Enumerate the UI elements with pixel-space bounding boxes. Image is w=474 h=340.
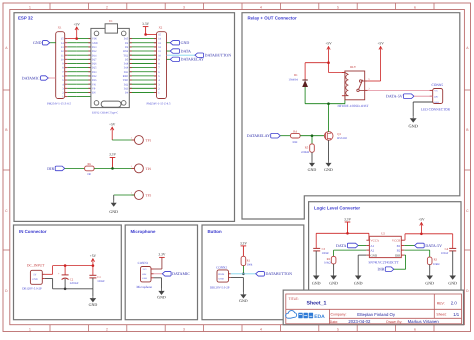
svg-text:3.3V: 3.3V — [109, 153, 116, 157]
svg-text:EDA: EDA — [314, 314, 325, 320]
svg-text:2023-04-02: 2023-04-02 — [348, 319, 371, 324]
svg-text:DB128V-5.0-2P: DB128V-5.0-2P — [210, 286, 230, 290]
svg-text:U1: U1 — [109, 19, 113, 23]
svg-text:6: 6 — [414, 327, 416, 331]
svg-text:100nF: 100nF — [97, 279, 105, 283]
svg-text:B1: B1 — [397, 244, 401, 248]
frame ticks sides — [3, 90, 471, 250]
relay RLY HF100F — [345, 71, 365, 100]
svg-text:100nF: 100nF — [441, 251, 449, 255]
net flag DATAMIC (mic) — [154, 273, 163, 275]
svg-text:TP3: TP3 — [146, 194, 152, 198]
svg-text:RXD: RXD — [123, 75, 129, 78]
svg-text:EN: EN — [92, 92, 96, 95]
wire CONN5 gnd — [413, 101, 433, 103]
wire U1 to X2 rows — [129, 39, 156, 93]
power +5V (LLC) — [420, 223, 422, 234]
svg-text:+5V: +5V — [90, 254, 97, 258]
svg-text:TITLE:: TITLE: — [289, 297, 299, 301]
power +5V (IN) — [92, 259, 94, 266]
svg-text:D21: D21 — [124, 71, 129, 74]
svg-text:CONN5: CONN5 — [432, 83, 444, 87]
power +5V (X1 top) — [76, 27, 78, 39]
svg-text:2200uF: 2200uF — [70, 281, 79, 285]
wire R4 to Q1 gate — [300, 135, 324, 137]
resistor R1 — [241, 256, 246, 265]
svg-text:+5V: +5V — [109, 122, 116, 126]
svg-text:GND: GND — [181, 40, 190, 45]
svg-text:DATA-5V: DATA-5V — [425, 243, 442, 248]
svg-text:BSS138: BSS138 — [337, 136, 347, 140]
net flag DATABUTTON — [195, 53, 204, 57]
svg-text:D12: D12 — [92, 50, 97, 53]
net flag DATABUTTON (button) — [256, 272, 265, 277]
wire +5V to relay pin1 — [328, 63, 330, 73]
svg-text:VP: VP — [92, 87, 96, 90]
EasyEDA logo — [286, 311, 297, 319]
svg-text:5: 5 — [337, 327, 339, 331]
svg-text:DIR: DIR — [395, 253, 401, 257]
ground (IN) — [92, 296, 94, 298]
ground (U2) — [357, 274, 359, 276]
wire button data — [231, 273, 256, 275]
svg-text:GND: GND — [308, 167, 317, 172]
svg-text:B2: B2 — [397, 248, 401, 252]
ground (R3) — [429, 274, 431, 276]
power 3.3V (mic) — [159, 256, 165, 258]
svg-text:4: 4 — [260, 327, 262, 331]
svg-text:CONN2: CONN2 — [216, 265, 227, 269]
section box ESP 32 — [14, 13, 235, 222]
wire U2 GND pin — [358, 254, 366, 256]
resistor R5 — [311, 136, 313, 144]
svg-text:DC_INPUT: DC_INPUT — [27, 264, 45, 268]
power +5V (relay coil) — [328, 47, 330, 63]
svg-text:2: 2 — [106, 5, 108, 9]
svg-text:GND: GND — [32, 278, 37, 281]
diode D1 1N4004 — [302, 79, 307, 81]
svg-text:0R: 0R — [87, 172, 90, 176]
transistor Q1 BSS138 — [324, 132, 333, 141]
svg-text:DAT: DAT — [142, 273, 147, 276]
svg-text:GND: GND — [142, 277, 147, 280]
svg-text:+5V: +5V — [377, 42, 384, 46]
svg-text:DATABUTTON: DATABUTTON — [205, 53, 232, 58]
svg-text:RX2: RX2 — [123, 50, 129, 53]
relay coil — [346, 75, 349, 96]
svg-text:5V: 5V — [33, 273, 36, 276]
svg-text:R6: R6 — [88, 162, 92, 166]
svg-text:3: 3 — [183, 5, 185, 9]
ground (R2) — [333, 274, 335, 276]
wire +5V rail — [405, 233, 453, 235]
svg-text:10Ω: 10Ω — [292, 140, 297, 144]
svg-text:A1: A1 — [370, 244, 374, 248]
section box title — [283, 290, 463, 325]
junction — [75, 37, 78, 40]
svg-text:VIN: VIN — [92, 38, 97, 41]
wire R6 to TP2 — [94, 167, 134, 169]
svg-text:A2: A2 — [370, 248, 374, 252]
svg-text:220kΩ: 220kΩ — [301, 150, 309, 154]
svg-text:R4: R4 — [293, 130, 297, 134]
ground (button) — [242, 292, 244, 294]
wire 3.3V to X2 pin15 — [146, 33, 157, 35]
net flag GND (X2) — [167, 42, 171, 44]
net flag DATA-5V (LLC) — [404, 245, 414, 247]
svg-text:GND: GND — [370, 253, 377, 257]
pin stubs X1/U1/X2 — [65, 39, 157, 97]
svg-text:R5: R5 — [305, 146, 309, 150]
svg-text:2: 2 — [106, 327, 108, 331]
svg-text:VCCA: VCCA — [370, 239, 379, 243]
svg-text:DATA: DATA — [218, 273, 224, 276]
svg-text:3.3V: 3.3V — [344, 218, 351, 222]
svg-text:VCCB: VCCB — [392, 239, 400, 243]
svg-text:D13: D13 — [92, 46, 97, 49]
wire DIR to R6 — [65, 167, 85, 169]
svg-text:SN74LVC2T45DCTT: SN74LVC2T45DCTT — [369, 261, 400, 265]
wire Q1 source to ground — [328, 140, 330, 161]
svg-text:GND: GND — [448, 281, 457, 286]
resistor R3 — [404, 249, 429, 251]
svg-text:GND: GND — [324, 167, 333, 172]
ground (mic) — [161, 289, 163, 291]
ground (R5) — [311, 161, 313, 163]
wire mic gnd — [154, 277, 162, 279]
svg-text:DATA: DATA — [336, 243, 346, 248]
svg-text:GND: GND — [33, 40, 42, 45]
svg-text:GND: GND — [354, 281, 363, 286]
svg-text:100k: 100k — [247, 262, 253, 266]
svg-text:TP2: TP2 — [146, 167, 152, 171]
svg-text:+5V: +5V — [418, 218, 425, 222]
resistor R6 — [85, 166, 95, 171]
connector CONN5 — [433, 89, 443, 104]
svg-text:GND: GND — [409, 124, 418, 129]
svg-text:DB128V-5.0-2P: DB128V-5.0-2P — [22, 286, 42, 290]
test point TP1 — [111, 127, 113, 140]
svg-text:PM254V-1-15-Z-8.5: PM254V-1-15-Z-8.5 — [47, 102, 71, 106]
svg-text:VN: VN — [92, 83, 96, 86]
ground (C3) — [315, 274, 317, 276]
svg-text:Microphone: Microphone — [131, 229, 156, 234]
svg-text:3.3V: 3.3V — [158, 253, 165, 257]
svg-text:D33: D33 — [92, 71, 97, 74]
svg-text:1/1: 1/1 — [453, 312, 460, 317]
wire diode to Q1 node — [304, 87, 306, 104]
svg-text:X1: X1 — [58, 26, 62, 30]
wire Q1 drain to relay — [328, 104, 330, 132]
wire button gnd — [231, 277, 244, 279]
svg-text:DATAMIC: DATAMIC — [172, 271, 190, 276]
svg-text:D14: D14 — [92, 54, 97, 57]
svg-text:RLY: RLY — [350, 65, 357, 69]
frame column numbers — [29, 5, 416, 331]
svg-text:DIR: DIR — [378, 267, 385, 272]
svg-text:DIR: DIR — [47, 166, 54, 171]
section box Logic Level Converter — [309, 202, 461, 291]
power 3.3V (button) — [241, 245, 247, 247]
svg-text:100nF: 100nF — [322, 251, 330, 255]
svg-text:DAT: DAT — [434, 95, 439, 98]
svg-text:3.3V: 3.3V — [142, 22, 149, 26]
svg-text:D15: D15 — [124, 38, 129, 41]
connector X2 — [157, 32, 167, 99]
svg-text:DATABUTTON: DATABUTTON — [266, 271, 293, 276]
svg-text:2.0: 2.0 — [451, 301, 458, 306]
svg-text:LED CONNECTOR: LED CONNECTOR — [421, 107, 451, 111]
svg-text:5: 5 — [337, 5, 339, 9]
svg-text:TX2: TX2 — [123, 54, 128, 57]
section box IN Connector — [14, 225, 122, 320]
ground (Q1) — [328, 161, 330, 163]
svg-text:GND: GND — [92, 42, 98, 45]
svg-text:1N4004: 1N4004 — [289, 78, 299, 82]
connector X1 — [56, 32, 65, 99]
svg-text:IN Connector: IN Connector — [19, 229, 47, 234]
svg-text:+5V: +5V — [325, 42, 332, 46]
net flag DATA (X2) — [167, 50, 171, 52]
svg-text:ESP 32: ESP 32 — [18, 15, 33, 20]
test point TP3 — [134, 191, 143, 200]
svg-text:Date:: Date: — [330, 320, 338, 324]
svg-text:GND: GND — [239, 299, 248, 303]
net flag GND (X1) — [50, 42, 56, 44]
svg-text:3: 3 — [183, 327, 185, 331]
svg-text:TXD: TXD — [123, 79, 128, 82]
svg-text:DATARELAY: DATARELAY — [181, 57, 204, 62]
junction — [327, 61, 330, 64]
wire relay pin2 to CONN5 — [368, 89, 433, 91]
test point TP2 — [132, 167, 135, 169]
svg-text:+5V: +5V — [73, 22, 80, 26]
svg-text:D26: D26 — [92, 63, 97, 66]
svg-text:REV:: REV: — [437, 302, 445, 306]
capacitor C3 — [313, 247, 320, 249]
power 3.3V (TP2) — [110, 157, 116, 159]
ground (TP3) — [113, 195, 115, 201]
svg-text:Sheet:: Sheet: — [436, 313, 446, 317]
net flag DATAMIC (X1) — [48, 77, 56, 79]
svg-text:D32: D32 — [92, 75, 97, 78]
svg-text:1: 1 — [29, 327, 31, 331]
svg-text:X2: X2 — [159, 26, 163, 30]
section box Relay + OUT Connector — [242, 13, 460, 219]
relay pin stubs — [342, 72, 345, 74]
ground (CONN5) — [412, 116, 414, 118]
svg-text:Button: Button — [208, 229, 222, 234]
svg-text:DATA-5V: DATA-5V — [386, 94, 403, 99]
svg-text:DATAMIC: DATAMIC — [22, 75, 40, 80]
power 3.3V (LLC) — [345, 221, 351, 223]
svg-text:GND: GND — [312, 281, 321, 286]
svg-text:DATA: DATA — [181, 48, 191, 53]
capacitor C1 100nF — [92, 266, 94, 276]
ground (C4) — [452, 274, 454, 276]
wire +5V rail (IN) — [53, 265, 93, 267]
svg-text:GND: GND — [329, 281, 338, 286]
svg-text:U2: U2 — [381, 231, 385, 235]
svg-text:10kΩ: 10kΩ — [433, 262, 439, 266]
svg-text:GND: GND — [89, 302, 98, 307]
svg-text:D18: D18 — [124, 63, 129, 66]
svg-text:+5V: +5V — [434, 90, 438, 93]
svg-text:D23: D23 — [124, 87, 129, 90]
svg-text:10kΩ: 10kΩ — [324, 261, 330, 265]
module U1 ESP32 — [91, 28, 129, 107]
section box Microphone — [125, 225, 197, 320]
resistor R4 — [291, 133, 301, 138]
capacitor C4 — [449, 247, 456, 249]
wire +5V to diode branch — [305, 62, 328, 64]
svg-text:GND: GND — [425, 281, 434, 286]
relay contact — [359, 80, 361, 82]
svg-text:GND: GND — [219, 277, 224, 280]
wire 3.3V rail — [316, 232, 369, 234]
capacitor C2 2200uF — [64, 266, 66, 275]
svg-text:6: 6 — [414, 5, 416, 9]
wire gnd rail (IN) — [53, 288, 93, 290]
svg-text:D22: D22 — [124, 83, 129, 86]
svg-text:Etteplan Finland Oy: Etteplan Finland Oy — [357, 312, 396, 317]
power +5V (relay contact) — [380, 47, 382, 81]
svg-text:Logic Level Converter: Logic Level Converter — [314, 206, 360, 211]
svg-text:GND: GND — [157, 295, 166, 299]
power 3.3V (X2 top) — [143, 26, 149, 28]
wire DATABUTTON (X2) — [167, 54, 195, 56]
svg-text:D25: D25 — [92, 67, 97, 70]
svg-text:D19: D19 — [124, 67, 129, 70]
frame row letters — [5, 46, 469, 293]
svg-text:Microphone: Microphone — [137, 285, 153, 289]
svg-text:DATARELAY: DATARELAY — [247, 133, 270, 138]
wire X1 to U1 rows — [67, 39, 91, 97]
svg-text:Markus Virtanen: Markus Virtanen — [408, 319, 440, 324]
section box Button — [202, 225, 304, 320]
title table — [286, 294, 462, 324]
svg-text:3.3V: 3.3V — [240, 241, 247, 245]
svg-text:HF100F-1/005D-1HST: HF100F-1/005D-1HST — [338, 104, 369, 108]
svg-text:PM254V-1-15-Z-8.5: PM254V-1-15-Z-8.5 — [147, 102, 171, 106]
svg-text:CONN1: CONN1 — [138, 261, 149, 265]
svg-text:TP1: TP1 — [146, 139, 152, 143]
svg-text:1: 1 — [29, 5, 31, 9]
svg-text:GND: GND — [109, 209, 118, 214]
svg-text:D1: D1 — [294, 73, 298, 77]
wire DATARELAY to R4 — [280, 135, 290, 137]
svg-text:4: 4 — [260, 5, 262, 9]
svg-text:Drawn By:: Drawn By: — [386, 320, 402, 324]
svg-text:D27: D27 — [92, 58, 97, 61]
net flag DATARELAY (X2) — [167, 58, 171, 60]
svg-text:Company:: Company: — [331, 313, 347, 317]
svg-text:Sheet_1: Sheet_1 — [307, 301, 327, 307]
resistor R2 — [334, 249, 367, 251]
svg-text:GND: GND — [434, 101, 439, 104]
svg-text:ESP32 CH340C Type-C: ESP32 CH340C Type-C — [92, 112, 118, 115]
chip U2 SN74LVC2T45DCTT — [369, 236, 401, 257]
svg-text:Relay + OUT Connector: Relay + OUT Connector — [248, 15, 297, 20]
frame ticks top — [50, 3, 434, 332]
svg-text:D35: D35 — [92, 79, 97, 82]
